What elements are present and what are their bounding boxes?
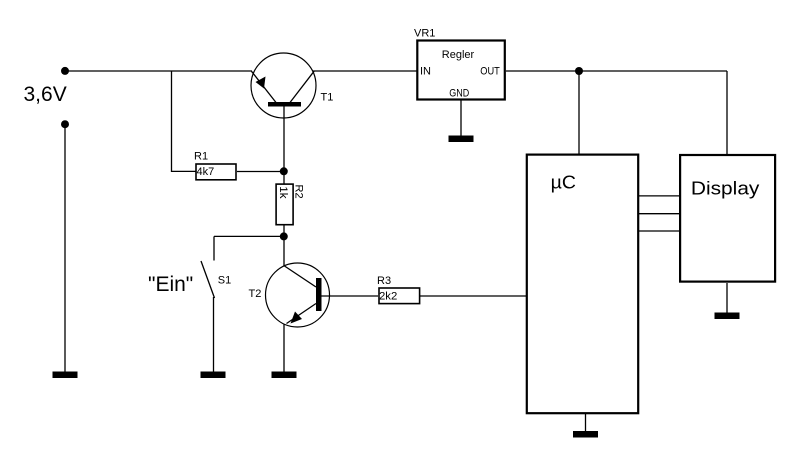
ground Display: [715, 313, 740, 320]
regulator VR1: [417, 41, 505, 100]
resistor R1: [196, 164, 236, 180]
wire R1 right to junction: [237, 171, 284, 173]
svg-text:3,6V: 3,6V: [24, 83, 67, 106]
svg-text:OUT: OUT: [480, 66, 500, 78]
svg-text:Regler: Regler: [442, 49, 475, 61]
wire battery - down to ground: [64, 124, 66, 372]
resistor R3: [379, 288, 420, 304]
transistor T1: [251, 53, 316, 118]
wire switch top contact: [213, 236, 215, 260]
resistor R2: [276, 184, 293, 225]
wire bus line 3 uC to Display: [638, 230, 680, 232]
block Display: [680, 155, 775, 282]
wire R3 to uC: [420, 295, 526, 297]
svg-text:2k2: 2k2: [379, 290, 397, 302]
wire T1 base down: [283, 106, 285, 184]
wire rail branch down to R1: [172, 71, 197, 171]
svg-text:VR1: VR1: [414, 27, 435, 39]
node VCC dot (battery +): [61, 67, 69, 75]
wire junction down to uC top: [578, 71, 580, 155]
wire R2 bottom to T2 collector: [283, 226, 285, 267]
svg-text:T2: T2: [249, 288, 262, 300]
ground battery: [53, 372, 78, 379]
svg-text:T1: T1: [321, 91, 334, 103]
svg-text:1k: 1k: [277, 186, 289, 199]
svg-text:R2: R2: [293, 185, 305, 199]
svg-text:IN: IN: [420, 66, 431, 78]
wire uC bottom pin: [585, 414, 587, 431]
wire switch bottom to ground: [213, 297, 215, 372]
transistor T2: [266, 263, 330, 327]
wire bus line 2 uC to Display: [638, 213, 680, 215]
wire down to Display top: [726, 71, 728, 155]
ground VR1: [449, 136, 474, 143]
svg-text:4k7: 4k7: [197, 166, 215, 178]
wire T2 emitter to ground: [283, 325, 285, 372]
node junction R1/R2/T1 base: [280, 167, 288, 175]
svg-text:"Ein": "Ein": [148, 273, 193, 296]
ground uC: [573, 431, 598, 438]
switch S1 blade: [201, 261, 215, 298]
wire VR1 OUT to top-right corner: [506, 70, 727, 72]
ground switch: [201, 372, 226, 379]
wire VR1 GND pin: [460, 100, 462, 136]
wire junction left to switch: [214, 235, 284, 237]
svg-text:R1: R1: [194, 151, 208, 163]
node junction R2/S1/T2: [280, 232, 288, 240]
wire T2 base to R3: [321, 295, 378, 297]
node battery - dot: [61, 120, 69, 128]
wire top rail battery to T1: [65, 70, 252, 72]
wire Display bottom pin: [726, 283, 728, 313]
ground T2: [272, 372, 297, 379]
svg-text:R3: R3: [377, 275, 391, 287]
svg-text:µC: µC: [551, 172, 576, 192]
block uC: [527, 155, 638, 414]
wire T1 collector to VR1 IN: [313, 70, 417, 72]
wire bus line 1 uC to Display: [638, 195, 680, 197]
svg-text:Display: Display: [691, 178, 760, 198]
svg-text:S1: S1: [218, 275, 231, 287]
svg-text:GND: GND: [449, 88, 469, 100]
node junction on OUT rail: [575, 67, 583, 75]
